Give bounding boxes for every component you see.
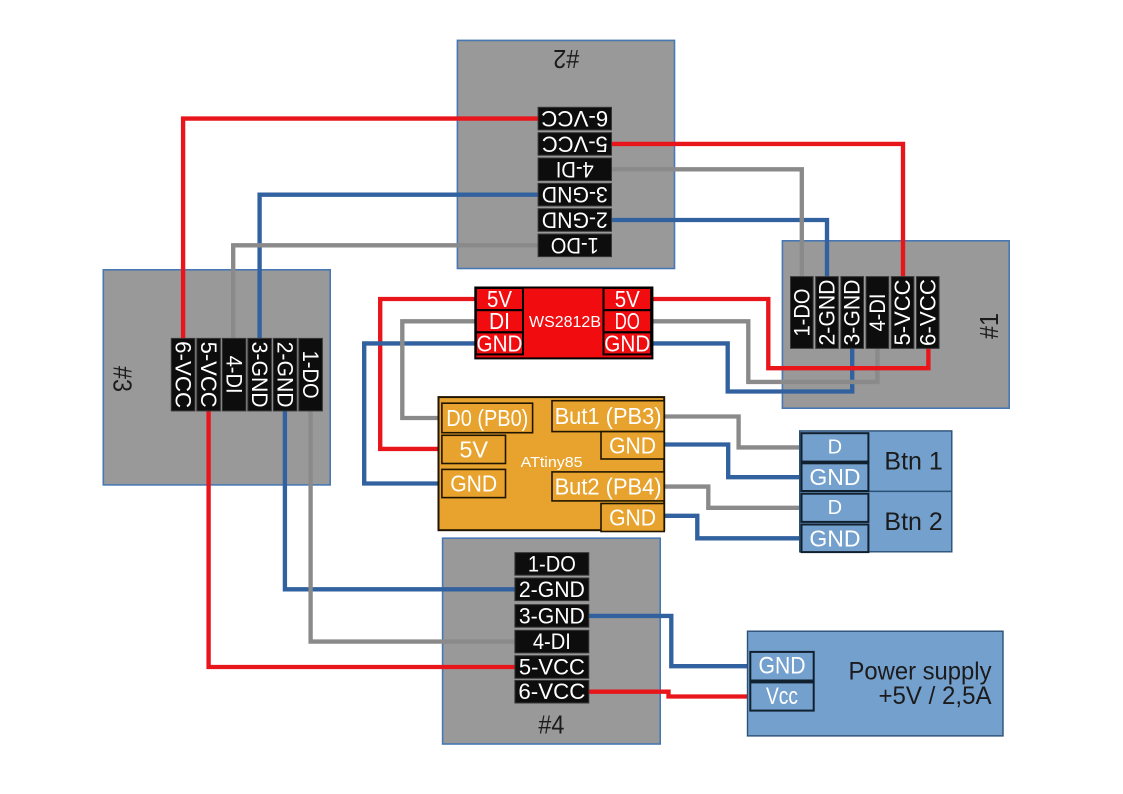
svg-text:GND: GND xyxy=(809,525,860,551)
wire blue GND: #4 pin 3-GND to power supply GND xyxy=(587,616,753,666)
svg-text:#2: #2 xyxy=(553,44,579,74)
svg-text:But1 (PB3): But1 (PB3) xyxy=(555,403,662,429)
ATtiny85 pin But2 (PB4) xyxy=(552,472,664,501)
connector #2 pin 1-DO xyxy=(538,233,611,258)
connector #1 body xyxy=(782,241,1009,408)
wire gray data: WS2812B DO to #1 pin 4-DI xyxy=(649,321,877,382)
ATtiny85 pin But1 (PB3) xyxy=(552,401,664,432)
svg-text:2-GND: 2-GND xyxy=(273,342,298,408)
wire red 5V: WS2812B 5V(right) to #1 pin 6-VCC xyxy=(649,299,928,368)
svg-text:+5V / 2,5A: +5V / 2,5A xyxy=(879,682,992,710)
wire gray data: ATtiny85 But1 (PB3) to Btn 1 D xyxy=(662,417,804,448)
ATtiny85 pin 5V xyxy=(442,435,506,463)
connector #2 pin 6-VCC xyxy=(538,106,611,131)
wire gray data: #3 pin 1-DO to #4 pin 4-DI xyxy=(311,409,517,642)
wire gray data: #2 pin 4-DI to #1 pin 1-DO xyxy=(610,169,802,279)
WS2812B pin 5V (right) xyxy=(604,286,652,312)
WS2812B pin DI (left) xyxy=(476,308,523,334)
connector #4 body xyxy=(443,538,661,744)
wire gray data: #2 pin 1-DO to #3 pin 4-DI xyxy=(233,245,540,341)
connector #3 pin 6-VCC xyxy=(171,338,196,411)
svg-text:GND: GND xyxy=(604,330,650,356)
connector #2 pin 5-VCC xyxy=(538,131,611,156)
button Btn 2 body xyxy=(800,491,952,551)
svg-text:WS2812B: WS2812B xyxy=(529,314,601,331)
svg-text:6-VCC: 6-VCC xyxy=(915,279,940,346)
svg-text:GND: GND xyxy=(759,653,806,680)
svg-text:5V: 5V xyxy=(459,436,488,462)
svg-text:3-GND: 3-GND xyxy=(519,603,585,628)
svg-text:GND: GND xyxy=(809,464,860,490)
button Btn 1 body xyxy=(800,431,952,492)
wire blue GND: ATtiny85 GND(PB3 side) to Btn 1 GND xyxy=(662,445,804,478)
Btn 2 pin D xyxy=(802,494,869,522)
connector #1 pin 1-DO xyxy=(789,277,814,349)
wire red VCC: #2 pin 6-VCC to #3 pin 6-VCC xyxy=(183,119,540,341)
svg-text:5-VCC: 5-VCC xyxy=(890,280,915,346)
connector #4 pin 4-DI xyxy=(515,629,589,654)
svg-text:6-VCC: 6-VCC xyxy=(171,341,196,408)
svg-text:1-DO: 1-DO xyxy=(298,351,323,399)
svg-text:2-GND: 2-GND xyxy=(815,280,840,346)
svg-text:#1: #1 xyxy=(974,313,1004,339)
svg-text:But2 (PB4): But2 (PB4) xyxy=(555,473,662,499)
wire blue GND: #3 pin 2-GND to #4 pin 2-GND xyxy=(285,409,517,589)
connector #3 pin 1-DO xyxy=(298,338,323,411)
wire gray data: ATtiny85 But2 (PB4) to Btn 2 D xyxy=(662,487,804,508)
connector #4 pin 1-DO xyxy=(515,551,589,576)
svg-text:3-GND: 3-GND xyxy=(840,280,865,346)
connector #2 pin 2-GND xyxy=(538,208,611,233)
connector #4 pin 3-GND xyxy=(515,603,589,628)
svg-text:4-DI: 4-DI xyxy=(865,294,890,332)
wire blue GND: WS2812B GND(right) to #1 pin 3-GND xyxy=(649,343,852,391)
svg-text:Btn 1: Btn 1 xyxy=(884,448,942,476)
svg-text:GND: GND xyxy=(609,505,656,531)
wire blue GND: ATtiny85 GND(PB4 side) to Btn 2 GND xyxy=(662,516,804,539)
wire gray data: WS2812B DI to ATtiny85 D0 (PB0) xyxy=(402,321,478,418)
ATtiny85 pin GND (left) xyxy=(442,469,506,497)
svg-text:1-DO: 1-DO xyxy=(789,289,814,337)
WS2812B pin DO (right) xyxy=(604,308,652,334)
svg-text:6-VCC: 6-VCC xyxy=(518,679,585,704)
connector #2 pin 4-DI xyxy=(538,157,611,182)
svg-text:3-GND: 3-GND xyxy=(247,342,272,408)
svg-text:D: D xyxy=(828,436,842,458)
connector #1 pin 5-VCC xyxy=(890,277,915,349)
Btn 1 pin D xyxy=(802,433,869,461)
Btn 1 pin GND xyxy=(802,463,869,491)
svg-text:#4: #4 xyxy=(538,710,564,740)
svg-text:6-VCC: 6-VCC xyxy=(541,106,608,131)
svg-text:4-DI: 4-DI xyxy=(533,629,571,654)
ATtiny85 pin D0 (PB0) xyxy=(442,403,533,433)
svg-text:GND: GND xyxy=(609,432,656,458)
wire red 5V: WS2812B 5V(left) to ATtiny85 5V xyxy=(380,299,478,449)
connector #2 body (rotated 180) xyxy=(457,40,674,268)
power supply pin Vcc xyxy=(750,682,813,710)
connector #1 pin 3-GND xyxy=(840,277,865,349)
svg-text:D: D xyxy=(828,497,842,519)
svg-text:Btn 2: Btn 2 xyxy=(884,508,942,536)
connector #3 pin 5-VCC xyxy=(196,338,221,411)
svg-text:5-VCC: 5-VCC xyxy=(542,131,608,156)
svg-text:#3: #3 xyxy=(107,366,137,392)
connector #3 pin 2-GND xyxy=(273,338,298,411)
connector #1 pin 2-GND xyxy=(815,277,840,349)
svg-text:2-GND: 2-GND xyxy=(542,208,608,233)
svg-text:4-DI: 4-DI xyxy=(556,157,594,182)
connector #3 pin 3-GND xyxy=(247,338,272,411)
connector #4 pin 6-VCC xyxy=(515,679,589,704)
connector #4 pin 2-GND xyxy=(515,577,589,602)
svg-text:5-VCC: 5-VCC xyxy=(519,655,585,680)
svg-text:3-GND: 3-GND xyxy=(542,182,608,207)
power supply body xyxy=(748,631,1004,736)
power supply pin GND xyxy=(750,652,813,681)
connector #2 pin 3-GND xyxy=(538,182,611,207)
wire blue GND: WS2812B GND(left) to ATtiny85 GND xyxy=(364,343,478,483)
svg-text:GND: GND xyxy=(477,330,523,356)
svg-text:2-GND: 2-GND xyxy=(519,577,585,602)
svg-text:1-DO: 1-DO xyxy=(528,551,576,576)
ATtiny85 pin GND (right lower) xyxy=(601,504,664,532)
WS2812B pin 5V (left) xyxy=(476,286,523,312)
wire red VCC: #3 pin 5-VCC to #4 pin 5-VCC xyxy=(209,409,517,667)
connector #1 pin 6-VCC xyxy=(915,277,940,349)
svg-text:1-DO: 1-DO xyxy=(551,233,599,258)
MCU ATtiny85 body xyxy=(439,397,665,530)
connector #1 pin 4-DI xyxy=(865,277,890,349)
connector #4 pin 5-VCC xyxy=(515,655,589,680)
svg-text:5-VCC: 5-VCC xyxy=(196,342,221,408)
svg-text:D0 (PB0): D0 (PB0) xyxy=(446,405,528,431)
wire blue GND: #2 pin 2-GND to #1 pin 2-GND xyxy=(610,220,828,279)
LED WS2812B body xyxy=(475,288,652,359)
WS2812B pin GND (left) xyxy=(476,330,523,356)
connector #3 body xyxy=(103,270,330,485)
ATtiny85 pin GND (right upper) xyxy=(601,432,664,459)
svg-text:4-DI: 4-DI xyxy=(222,356,247,394)
Btn 2 pin GND xyxy=(802,525,869,553)
svg-text:ATtiny85: ATtiny85 xyxy=(521,454,583,471)
wire blue GND: #2 pin 3-GND to #3 pin 3-GND xyxy=(260,195,540,341)
svg-text:GND: GND xyxy=(450,471,497,497)
connector #3 pin 4-DI xyxy=(222,338,247,411)
wire red VCC: #4 pin 6-VCC to power supply Vcc xyxy=(587,692,753,697)
svg-text:Vcc: Vcc xyxy=(766,683,798,710)
wire red VCC: #2 pin 5-VCC to #1 pin 5-VCC xyxy=(610,144,904,279)
WS2812B pin GND (right) xyxy=(604,330,652,356)
